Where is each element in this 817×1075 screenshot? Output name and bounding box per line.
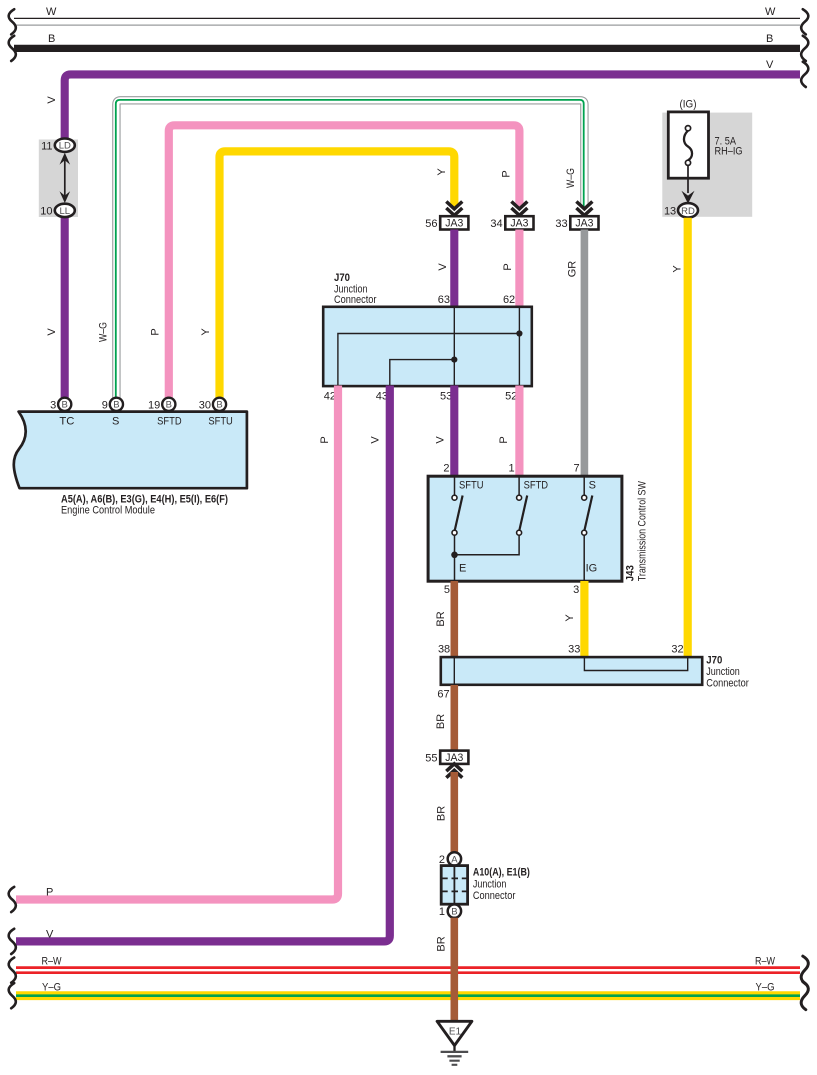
terminal 1 B	[448, 904, 461, 917]
svg-text:Connector: Connector	[473, 890, 516, 902]
wire: P from JA3 34 to J70 pin 62	[515, 230, 523, 308]
wire: BR from junction connector B to ground E1	[450, 918, 458, 1022]
svg-text:RD: RD	[681, 206, 695, 217]
terminal LD	[55, 139, 75, 152]
connector body	[441, 866, 467, 905]
switch SFTD	[518, 476, 520, 495]
break symbol: Y-G bus right	[801, 982, 808, 1010]
svg-text:W–G: W–G	[565, 168, 577, 188]
switch SFTU	[454, 476, 456, 495]
svg-text:GR: GR	[567, 261, 579, 278]
engine control module ECM	[14, 398, 247, 517]
svg-text:B: B	[166, 400, 172, 411]
svg-text:E: E	[459, 563, 466, 575]
svg-text:11: 11	[41, 140, 52, 152]
svg-text:56: 56	[425, 218, 437, 230]
wire: V from J70 pin 53 to J43 pin 2	[450, 386, 458, 477]
svg-text:RH–IG: RH–IG	[715, 145, 743, 157]
svg-text:63: 63	[438, 294, 450, 306]
svg-text:W: W	[46, 6, 57, 18]
break symbol: R-W bus left	[9, 958, 16, 983]
svg-text:S: S	[589, 480, 596, 492]
svg-text:P: P	[46, 887, 53, 899]
svg-text:W–G: W–G	[98, 322, 110, 342]
svg-text:Y: Y	[564, 614, 576, 622]
svg-text:(IG): (IG)	[680, 99, 697, 111]
internal wire 62-52	[518, 307, 520, 386]
arrow up (toward LD)	[60, 153, 71, 165]
svg-text:SFTD: SFTD	[157, 416, 182, 428]
svg-text:BR: BR	[435, 714, 447, 729]
svg-text:B: B	[451, 907, 457, 918]
junction node	[451, 357, 457, 363]
svg-text:Connector: Connector	[706, 677, 749, 689]
arrow down (toward LL)	[60, 191, 71, 203]
svg-text:3: 3	[50, 400, 56, 412]
svg-text:62: 62	[503, 294, 515, 306]
wire: V from JA3 56 to J70 pin 63	[450, 230, 458, 308]
svg-text:SFTU: SFTU	[459, 480, 484, 492]
svg-text:32: 32	[671, 644, 683, 656]
internal wire 38-67	[453, 657, 455, 685]
svg-text:Y–G: Y–G	[756, 982, 775, 994]
connector 11 LD / 10 LL (gray block)	[39, 139, 78, 218]
svg-text:P: P	[501, 170, 513, 177]
break symbol: W bus left	[9, 9, 16, 34]
svg-text:A10(A), E1(B): A10(A), E1(B)	[473, 867, 530, 879]
svg-text:30: 30	[199, 400, 211, 412]
wire: V bus + vertical V wire to ECM pin 3	[65, 59, 800, 398]
terminal 13 RD	[678, 203, 698, 217]
pin 9 B	[110, 398, 123, 411]
svg-text:LL: LL	[60, 206, 71, 217]
svg-text:13: 13	[664, 205, 676, 217]
wire: R-W bus (bottom)	[16, 956, 800, 973]
transmission control switch J43	[428, 463, 648, 597]
svg-text:P: P	[150, 328, 162, 335]
break symbol: Y-G bus left	[9, 983, 16, 1008]
svg-text:67: 67	[437, 689, 449, 701]
pin 30 B	[213, 398, 226, 411]
svg-text:19: 19	[148, 400, 160, 412]
internal wire 63-53	[453, 307, 455, 386]
svg-text:1: 1	[439, 906, 445, 918]
junction connector A10(A), E1(B)	[439, 852, 530, 918]
break symbol: B bus left	[9, 36, 16, 61]
svg-text:R–W: R–W	[755, 956, 775, 968]
svg-text:A: A	[451, 854, 458, 865]
wire between arrows	[64, 160, 66, 196]
connector JA3 pin 33	[555, 202, 598, 231]
break symbol: P bus left	[9, 887, 16, 912]
arrow down to terminal	[682, 191, 695, 204]
internal wire from pin 43 to node on 63-53	[390, 360, 455, 387]
junction node E	[451, 552, 458, 559]
wire: P from J70 pin 42 down-left to left edge	[16, 386, 338, 900]
internal wire 33-32	[584, 657, 687, 670]
terminal LL	[55, 204, 75, 217]
svg-text:P: P	[319, 436, 331, 443]
wire: BR from J70 pin 67 to JA3 55	[450, 685, 458, 751]
junction connector J70 (upper)	[323, 272, 532, 403]
wire: GR from JA3 33 to J43 pin 7	[581, 230, 589, 477]
svg-text:SFTU: SFTU	[208, 416, 233, 428]
junction connector J70 (lower)	[437, 644, 749, 701]
svg-text:J70: J70	[334, 272, 350, 284]
switch S	[583, 476, 585, 495]
wire: B bus (black, top)	[14, 33, 800, 48]
wire: Y from ECM pin 30 to JA3 56	[220, 151, 455, 398]
svg-text:Y: Y	[436, 168, 448, 176]
svg-text:5: 5	[444, 584, 450, 596]
wire: BR from J43 pin 5 (E) to lower J70 pin 38	[450, 581, 458, 658]
wire: Y from J43 pin 3 (IG) to lower J70 pin 33	[580, 581, 588, 658]
svg-text:33: 33	[568, 644, 580, 656]
svg-text:Y: Y	[672, 265, 684, 273]
svg-text:38: 38	[438, 644, 450, 656]
svg-text:P: P	[498, 436, 510, 443]
wire S to IG	[583, 535, 585, 581]
svg-text:B: B	[48, 33, 55, 45]
svg-text:B: B	[766, 33, 773, 45]
svg-text:2: 2	[443, 463, 449, 475]
wire: W bus (white, top)	[14, 6, 800, 25]
break symbol: V bus right	[801, 62, 808, 87]
break symbol: V bus left	[9, 929, 16, 954]
svg-text:JA3: JA3	[510, 218, 528, 230]
svg-text:V: V	[437, 263, 449, 271]
svg-text:R–W: R–W	[42, 956, 62, 968]
svg-text:Y–G: Y–G	[42, 982, 61, 994]
svg-text:S: S	[112, 416, 119, 428]
break symbol: B bus right	[801, 36, 808, 61]
svg-text:V: V	[46, 328, 58, 336]
svg-text:BR: BR	[436, 806, 448, 821]
svg-text:LD: LD	[59, 141, 71, 152]
svg-text:Engine Control Module: Engine Control Module	[61, 504, 155, 516]
ground E1	[437, 1021, 472, 1065]
wire: W-G from ECM pin 9 to JA3 33	[116, 100, 585, 398]
svg-text:9: 9	[102, 400, 108, 412]
svg-text:10: 10	[40, 206, 52, 218]
svg-text:P: P	[502, 263, 514, 270]
pin 3 B	[58, 398, 71, 411]
wire: BR from JA3 55 to junction connector A	[450, 772, 458, 852]
svg-text:B: B	[113, 400, 119, 411]
svg-text:Transmission Control SW: Transmission Control SW	[637, 481, 649, 581]
svg-text:Junction: Junction	[473, 878, 507, 890]
wire: P from J70 pin 52 to J43 pin 1	[515, 386, 523, 477]
break symbol: W bus right	[801, 9, 808, 34]
svg-text:SFTD: SFTD	[524, 480, 549, 492]
svg-text:V: V	[46, 96, 58, 104]
wire: Y-G bus (bottom)	[16, 982, 800, 996]
svg-text:TC: TC	[59, 416, 74, 428]
svg-text:W: W	[765, 6, 776, 18]
wire: P from ECM pin 19 to JA3 34	[169, 125, 520, 398]
svg-text:V: V	[370, 436, 382, 444]
fuse 7.5A RH-IG (IG)	[662, 99, 752, 218]
svg-text:V: V	[766, 59, 774, 71]
svg-text:3: 3	[573, 584, 579, 596]
internal wire from pin 42 to node on 62-52	[338, 334, 520, 387]
junction node	[516, 330, 522, 336]
svg-text:J43: J43	[625, 565, 637, 581]
wire: Y from fuse 13 RD down to J70 pin 32	[684, 218, 692, 658]
svg-text:Y: Y	[200, 328, 212, 336]
internal wiring SFTU/SFTD to E	[455, 535, 520, 581]
pin 19 B	[162, 398, 175, 411]
svg-text:V: V	[46, 929, 54, 941]
svg-text:BR: BR	[436, 936, 448, 951]
svg-text:V: V	[435, 436, 447, 444]
svg-text:IG: IG	[586, 563, 598, 575]
svg-text:BR: BR	[435, 611, 447, 626]
svg-text:E1: E1	[449, 1027, 462, 1038]
svg-text:Connector: Connector	[334, 294, 377, 306]
connector JA3 pin 55	[425, 751, 468, 778]
svg-text:JA3: JA3	[575, 218, 593, 230]
svg-text:33: 33	[555, 218, 567, 230]
svg-text:B: B	[216, 400, 222, 411]
connector JA3 pin 56	[425, 202, 468, 231]
svg-text:1: 1	[508, 463, 514, 475]
svg-text:7: 7	[573, 463, 579, 475]
terminal 2 A	[448, 852, 461, 865]
svg-text:Junction: Junction	[706, 666, 740, 678]
fuse element	[684, 131, 692, 161]
svg-text:JA3: JA3	[445, 218, 463, 230]
svg-text:34: 34	[490, 218, 502, 230]
wire: V from J70 pin 43 down-left to left edge	[16, 386, 390, 942]
svg-text:J70: J70	[706, 655, 722, 667]
connector JA3 pin 34	[490, 202, 533, 231]
svg-text:B: B	[62, 400, 68, 411]
svg-text:55: 55	[425, 752, 437, 764]
break symbol: R-W bus right	[801, 956, 808, 984]
